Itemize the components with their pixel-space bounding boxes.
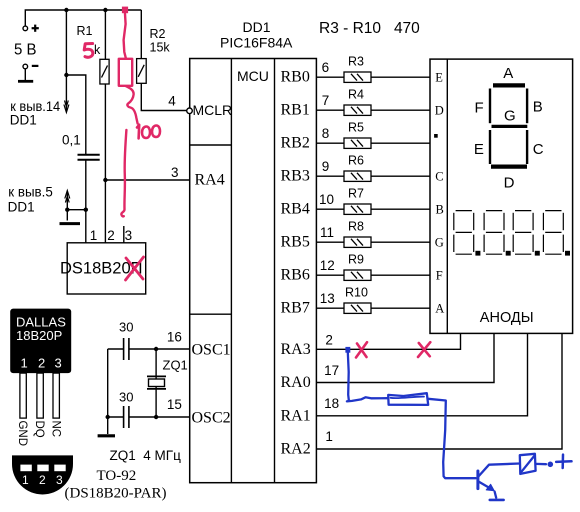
- ground crystal: [98, 434, 115, 437]
- MCU strip separator 2: [190, 313, 232, 315]
- pin numbers 6-13, 2,17,18,1: [319, 60, 339, 444]
- svg-text:RB6: RB6: [281, 267, 310, 284]
- svg-text:3: 3: [171, 165, 179, 180]
- display inner line: [446, 59, 448, 333]
- DS18B20 TO-92 package body: [10, 309, 71, 374]
- MCU inner line left: [230, 59, 232, 483]
- capacitor C bottom: [124, 406, 129, 428]
- svg-text:R6: R6: [348, 154, 364, 168]
- node osc2 junction: [154, 415, 158, 419]
- wire cap to DS pin1: [85, 160, 87, 243]
- ground bar: [490, 499, 504, 502]
- DS18B20 box: [67, 243, 146, 294]
- svg-text:C: C: [435, 169, 443, 183]
- svg-text:R9: R9: [348, 253, 364, 267]
- wire left vertical: [107, 349, 109, 434]
- svg-text:B: B: [533, 99, 543, 116]
- svg-text:к выв.5: к выв.5: [8, 184, 53, 199]
- svg-text:R5: R5: [348, 121, 364, 135]
- box diagonal: [522, 456, 534, 471]
- svg-text:RA0: RA0: [281, 374, 311, 391]
- svg-text:2: 2: [39, 473, 46, 487]
- node cap2 junction: [106, 415, 110, 419]
- wire R1 bottom to DS pin2: [104, 84, 106, 243]
- svg-text:E: E: [474, 141, 484, 158]
- display bottom pins to RA: [316, 333, 562, 449]
- svg-text:RA4: RA4: [195, 172, 225, 189]
- svg-text:18B20P: 18B20P: [16, 328, 62, 343]
- svg-text:R1: R1: [77, 24, 93, 38]
- wire RA3: [316, 333, 460, 349]
- wire RA1: [316, 333, 527, 415]
- display dot 1: [475, 251, 480, 256]
- node osc1 junction: [154, 347, 158, 351]
- wire RA0: [316, 333, 494, 382]
- svg-text:DD1: DD1: [243, 19, 271, 35]
- svg-text:30: 30: [119, 320, 133, 335]
- svg-text:12: 12: [320, 258, 335, 273]
- node junction vyv14: [64, 73, 68, 77]
- resistor R6: [316, 171, 430, 181]
- svg-text:9: 9: [322, 159, 330, 174]
- resistor network R3-R10: [316, 55, 430, 314]
- wire top rail: [25, 10, 141, 26]
- svg-text:G: G: [435, 235, 444, 249]
- package lead 1: [20, 373, 26, 418]
- TO-92 pad 2: [37, 465, 48, 472]
- svg-text:1: 1: [22, 473, 29, 487]
- node junction top2: [103, 8, 107, 12]
- svg-text:0,1: 0,1: [62, 133, 81, 148]
- display digit 3: [513, 211, 533, 255]
- display digit 2: [484, 211, 504, 255]
- svg-text:3: 3: [55, 356, 62, 371]
- svg-text:RA1: RA1: [281, 407, 311, 424]
- svg-text:3: 3: [56, 473, 63, 487]
- svg-text:4: 4: [168, 94, 176, 109]
- capacitor 0,1: [78, 155, 100, 160]
- svg-text:R3 - R10 470: R3 - R10 470: [319, 20, 420, 37]
- display dot 4: [565, 251, 570, 256]
- blue pen annotations: [345, 347, 571, 500]
- plus sign: [556, 460, 571, 463]
- svg-text:PIC16F84A: PIC16F84A: [220, 35, 293, 51]
- TO-92 bottom view: [12, 455, 73, 494]
- resistor R2: [137, 59, 147, 84]
- svg-text:RB0: RB0: [281, 69, 310, 86]
- svg-text:DD1: DD1: [8, 200, 35, 215]
- node junction vyv5: [84, 208, 88, 212]
- arrow to pin14: [64, 101, 69, 113]
- svg-text:TO-92: TO-92: [97, 468, 137, 484]
- seg B: [526, 89, 528, 124]
- svg-text:GND: GND: [16, 421, 28, 447]
- svg-text:k: k: [94, 43, 101, 57]
- red label 5: [84, 44, 93, 58]
- svg-text:RB3: RB3: [281, 168, 310, 185]
- svg-text:D: D: [504, 174, 515, 191]
- MCU inner line right: [274, 59, 276, 483]
- resistor R4: [316, 105, 430, 115]
- optocoupler box: [520, 454, 536, 474]
- svg-text:10: 10: [319, 192, 334, 207]
- transistor base bar: [476, 471, 479, 489]
- wire R1 top: [104, 10, 106, 59]
- svg-text:D: D: [435, 103, 444, 117]
- display dot 3: [535, 251, 540, 256]
- svg-text:R2: R2: [150, 27, 166, 41]
- emitter arrowhead: [486, 484, 494, 490]
- svg-text:NC: NC: [49, 421, 61, 438]
- crystal ZQ1: [147, 376, 166, 389]
- wire DS pin3 stub: [123, 226, 125, 243]
- svg-text:7: 7: [322, 93, 330, 108]
- svg-text:ZQ1 4 МГц: ZQ1 4 МГц: [110, 448, 182, 463]
- MCU strip separator 1: [190, 144, 232, 146]
- red wire top: [124, 12, 126, 59]
- seg F: [489, 89, 491, 124]
- wire crystal vertical: [155, 349, 157, 417]
- node junction arrow5: [65, 208, 69, 212]
- svg-text:R3: R3: [348, 55, 364, 69]
- svg-text:MCU: MCU: [237, 68, 269, 84]
- svg-text:F: F: [436, 268, 443, 282]
- svg-text:16: 16: [167, 330, 182, 345]
- svg-text:E: E: [435, 70, 443, 84]
- wire R2 top: [140, 10, 142, 59]
- red X on DS18B20: [126, 257, 144, 280]
- svg-text:2: 2: [107, 228, 115, 243]
- resistor R8: [316, 237, 430, 247]
- svg-text:A: A: [435, 302, 444, 316]
- svg-text:ZQ1: ZQ1: [163, 358, 188, 373]
- wire box to plus: [536, 463, 546, 466]
- resistor R3: [316, 72, 430, 82]
- node junction RA4/DQ: [103, 178, 107, 182]
- svg-text:OSC2: OSC2: [192, 410, 231, 427]
- red X1 on RA3: [356, 342, 367, 357]
- package lead 2: [37, 373, 43, 418]
- wire RA2: [316, 333, 562, 449]
- MCLR circle and label: [187, 108, 193, 114]
- svg-text:RA2: RA2: [281, 441, 311, 458]
- svg-text:R8: R8: [348, 220, 364, 234]
- svg-text:RB2: RB2: [281, 135, 310, 152]
- wire RA4 pin3: [105, 179, 189, 181]
- svg-text:DQ: DQ: [33, 421, 45, 438]
- svg-text:1: 1: [21, 356, 28, 371]
- package lead 3: [53, 373, 59, 418]
- svg-text:RB7: RB7: [281, 300, 310, 317]
- transistor emitter: [479, 482, 493, 490]
- DALLAS package: [10, 309, 166, 502]
- svg-text:15: 15: [167, 397, 182, 412]
- red junction square: [122, 7, 128, 14]
- svg-text:RB4: RB4: [281, 201, 310, 218]
- TO-92 pad 1: [20, 465, 31, 472]
- blue wire resistor to base: [428, 399, 476, 478]
- display dot 2: [506, 251, 511, 256]
- MCU box DD1: [190, 59, 317, 483]
- resistor R10: [316, 303, 430, 313]
- red label 100: [137, 125, 160, 139]
- minus terminal: [18, 64, 38, 81]
- transistor collector: [479, 464, 520, 477]
- seg D: [491, 165, 527, 169]
- wire k-vyv5 branch: [67, 192, 86, 210]
- svg-text:B: B: [436, 202, 444, 216]
- svg-text:RB1: RB1: [281, 102, 310, 119]
- resistor R1: [100, 59, 109, 84]
- display digit 4: [543, 211, 563, 255]
- blue dot: [548, 462, 554, 468]
- wire osc2: [108, 416, 124, 418]
- seg C: [526, 130, 528, 164]
- svg-text:3: 3: [125, 228, 133, 243]
- dot pin: [434, 134, 438, 138]
- svg-text:2: 2: [325, 333, 333, 348]
- 4 digit display: [454, 211, 570, 256]
- svg-text:13: 13: [320, 291, 335, 306]
- svg-text:OSC1: OSC1: [192, 342, 231, 359]
- ground under vyv5: [60, 222, 81, 225]
- svg-text:MCLR: MCLR: [193, 102, 233, 118]
- svg-text:АНОДЫ: АНОДЫ: [480, 310, 534, 326]
- wire R2 to MCLR: [141, 83, 187, 110]
- svg-text:RB5: RB5: [281, 234, 310, 251]
- port labels RB0-RB7 RA3 RA0 RA1 RA2: [281, 69, 311, 458]
- svg-text:11: 11: [320, 225, 334, 240]
- plus terminal: [23, 25, 39, 32]
- blue wire down from RA3: [347, 352, 388, 401]
- display box: [430, 59, 573, 333]
- svg-text:30: 30: [119, 390, 133, 405]
- svg-text:8: 8: [322, 126, 330, 141]
- wire branch to k-vyv14: [65, 10, 67, 111]
- display digit 1: [454, 211, 474, 255]
- svg-text:18: 18: [324, 396, 339, 411]
- svg-text:15k: 15k: [150, 41, 171, 55]
- blue resistor: [388, 393, 428, 405]
- capacitor C top: [124, 338, 129, 360]
- seg E: [489, 130, 491, 164]
- red wire long to pin3: [121, 130, 126, 216]
- TO-92 pad 3: [54, 465, 65, 472]
- svg-text:1: 1: [325, 429, 333, 444]
- red resistor 100: [119, 59, 132, 86]
- segment strip letters: [435, 70, 445, 315]
- resistor R7: [316, 204, 430, 214]
- wire osc1: [108, 349, 190, 434]
- svg-text:DD1: DD1: [10, 113, 37, 128]
- svg-text:6: 6: [322, 60, 330, 75]
- svg-text:A: A: [503, 65, 513, 82]
- svg-text:R7: R7: [348, 187, 364, 201]
- wire ground stub: [66, 210, 68, 221]
- svg-text:1: 1: [90, 228, 98, 243]
- svg-text:R10: R10: [345, 286, 368, 300]
- svg-text:17: 17: [324, 363, 339, 378]
- arrow to pin5: [65, 191, 70, 203]
- node junction top1: [64, 8, 68, 12]
- red pen annotations: [84, 7, 430, 358]
- svg-text:5 В: 5 В: [14, 42, 37, 59]
- svg-text:2: 2: [38, 356, 45, 371]
- resistor R9: [316, 270, 430, 280]
- seg A: [493, 83, 525, 87]
- emitter to ground: [495, 492, 497, 498]
- svg-text:(DS18B20-PAR): (DS18B20-PAR): [65, 486, 167, 502]
- blue junction dot RA3: [345, 347, 350, 353]
- svg-text:G: G: [504, 108, 516, 125]
- svg-text:C: C: [533, 141, 544, 158]
- big 7seg diagram: [474, 65, 544, 191]
- wire to DS pin1: [66, 75, 85, 154]
- resistor R5: [316, 138, 430, 148]
- svg-text:RA3: RA3: [281, 341, 311, 358]
- svg-text:F: F: [475, 99, 484, 116]
- svg-text:R4: R4: [348, 88, 364, 102]
- red X2 on RA3: [418, 342, 430, 357]
- red wire below resistor: [126, 86, 138, 123]
- seg G: [492, 125, 528, 128]
